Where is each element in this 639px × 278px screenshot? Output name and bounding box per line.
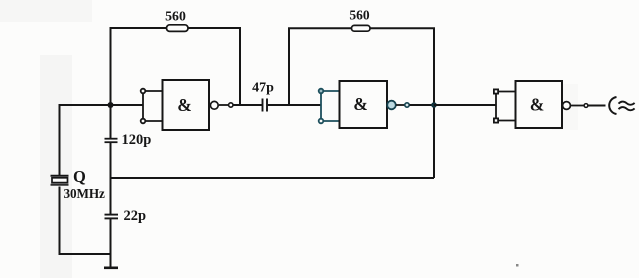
- resistor R1: [167, 25, 189, 32]
- svg-text:&: &: [353, 94, 368, 114]
- wire: bottom horizontal (crystal leg to ground stem): [60, 253, 112, 255]
- output AC symbol (approx sign): [619, 102, 635, 111]
- wire: U1 output to C1 47p (crosses feedback tap x=240): [233, 104, 262, 106]
- svg-text:&: &: [177, 95, 192, 115]
- svg-text:Q: Q: [73, 167, 86, 186]
- capacitor C2 120p: [105, 139, 118, 143]
- svg-text:30MHz: 30MHz: [64, 186, 105, 201]
- U1 input pins (tie bar and pin circles): [141, 89, 163, 124]
- wire: U3 output lead: [588, 105, 606, 107]
- wire: U2 feedback right vertical (x=434, down to bottom net): [433, 28, 435, 178]
- terminal circle at U2 output: [405, 103, 409, 107]
- U2 input pins (tie bar and pin circles): [319, 89, 340, 124]
- wire: C1 to U2 input bar (crosses feedback tap x=289): [268, 104, 321, 106]
- svg-text:560: 560: [349, 8, 370, 23]
- stray speck artifact: [516, 264, 519, 267]
- wire: feedback left vertical (U1 input net, x=110): [110, 27, 112, 105]
- wire: feedback top-left segment to R1: [110, 27, 168, 29]
- wire: crystal left leg vertical (bottom): [59, 187, 61, 256]
- wire: feedback top-right segment from R1: [188, 27, 241, 29]
- wire: U1 bubble to output terminal: [219, 104, 229, 106]
- node A: gate U1 input junction: [108, 102, 114, 108]
- wire: U2 output to node B: [410, 104, 435, 106]
- wire: mid net horizontal (cap divider to x=434): [111, 177, 435, 179]
- wire: node B to U3 input bar: [434, 104, 496, 106]
- wire: crystal left leg vertical (top): [59, 104, 61, 175]
- wire: U2 bubble to output terminal: [396, 104, 405, 106]
- wire: node A down to C2 120p: [110, 105, 112, 138]
- terminal circle at U1 output: [229, 103, 233, 107]
- crystal Q (30MHz): [51, 176, 69, 185]
- NAND gate U2: [340, 81, 396, 128]
- node B: U2 output junction on x=434: [431, 102, 437, 108]
- svg-text:560: 560: [165, 9, 186, 24]
- wire: node A to U1 input bar: [111, 104, 144, 106]
- wire: U3 bubble to output terminal: [571, 105, 585, 107]
- NAND gate U3: [516, 81, 571, 128]
- wire: feedback right vertical (to U1 output net, x=240): [239, 27, 241, 106]
- wire: U2 feedback top-right segment from R2: [370, 27, 435, 29]
- ground: [104, 266, 118, 269]
- wire: C3 down to bottom corner: [110, 219, 112, 255]
- U3 input pins (tie bar and pin circles): [494, 89, 516, 122]
- svg-text:120p: 120p: [122, 132, 152, 148]
- wire: U2 feedback left vertical (x=289): [288, 28, 290, 105]
- svg-text:22p: 22p: [124, 208, 147, 224]
- svg-text:47p: 47p: [252, 81, 274, 96]
- wire: U2 feedback top-left segment to R2: [288, 27, 352, 29]
- wire: crystal branch horizontal (node A to left leg): [60, 104, 111, 106]
- wire: ground stem: [110, 254, 112, 267]
- capacitor C1 47p: [263, 99, 268, 112]
- wire: C2 to C3 (through mid-net tap): [110, 143, 112, 214]
- capacitor C3 22p: [105, 215, 119, 219]
- output connector arc: [609, 97, 616, 114]
- resistor R2: [352, 25, 371, 31]
- terminal circle at U3 output: [584, 104, 588, 108]
- NAND gate U1: [163, 80, 219, 130]
- svg-text:&: &: [530, 95, 545, 115]
